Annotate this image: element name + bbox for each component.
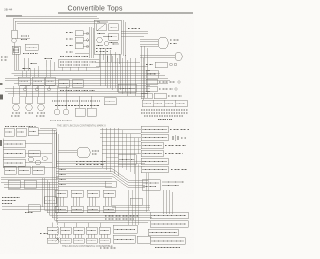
svg-text:THE 1957 LINCOLN CONTINENTAL M: THE 1957 LINCOLN CONTINENTAL MARK II <box>57 125 106 128</box>
grid vertical x122 <box>122 58 124 94</box>
label box above <box>25 44 38 50</box>
feed box row right 1 <box>58 80 69 88</box>
crossing vertical x147 <box>146 48 148 98</box>
wire vertical right of assembly <box>122 20 124 56</box>
relay R1 box <box>12 30 18 38</box>
crossing vertical x105 <box>104 48 106 86</box>
wire top bus line 2 <box>13 18 99 20</box>
stack box 2 <box>3 150 25 158</box>
main harness wire bundle <box>5 46 170 98</box>
wire below relay <box>13 43 15 70</box>
inner box 3 <box>109 33 119 40</box>
inner text marks <box>96 48 112 50</box>
legend text row 3 <box>144 115 183 117</box>
top lift cylinder motor 1 <box>11 86 21 116</box>
label text near relay <box>21 35 29 37</box>
B left notes text <box>2 198 58 212</box>
aux row 3 boxes <box>141 93 152 99</box>
column box 4 <box>141 150 163 157</box>
left margin ink speck 3 <box>0 140 2 146</box>
star mark <box>56 238 60 242</box>
bottom mid extra box <box>137 236 150 243</box>
crossing vertical x120 <box>119 55 121 90</box>
B wide mid harness <box>56 169 148 188</box>
feed row 3 terminal <box>86 45 88 47</box>
feed row 3 wire <box>83 46 89 48</box>
connector pin line 4 <box>140 46 158 48</box>
motor circles cluster B left <box>28 151 47 166</box>
bottom connector D3 <box>73 227 84 243</box>
connector pin line 3 <box>140 43 158 45</box>
feed row 1 box <box>75 31 83 36</box>
legend cell text <box>144 102 152 104</box>
B bottom connector row <box>47 227 110 243</box>
long wire row 2 <box>56 163 145 165</box>
B bottom band harness <box>45 210 153 227</box>
feed row 1 label <box>66 32 73 34</box>
B right label column <box>141 126 189 173</box>
right cluster above legend <box>141 79 182 99</box>
circuit breaker box <box>12 46 20 54</box>
top lift cylinder motor 2 <box>25 86 33 113</box>
extra drops label zone <box>24 58 54 71</box>
svg-text:Convertible Tops: Convertible Tops <box>68 5 124 12</box>
paper background <box>0 0 194 259</box>
caption tail <box>100 247 116 249</box>
B mid box <box>118 155 136 165</box>
motor symbol row <box>11 86 100 116</box>
extra cluster boxes <box>130 198 142 205</box>
wire labels row <box>60 90 95 92</box>
B enclosure rectangle <box>3 129 59 223</box>
mid cluster box 2 <box>104 98 116 105</box>
harness wire 2 <box>12 72 161 74</box>
relay R1 coil circle <box>12 38 16 42</box>
feed row 2 terminal <box>86 39 88 41</box>
feed row 3 label <box>66 45 73 47</box>
boxes on harness <box>8 180 20 188</box>
lower wire 2 <box>5 90 150 92</box>
B right bottom column <box>148 212 188 248</box>
crossing vertical x110 <box>109 50 111 88</box>
feed row 4 wire <box>75 52 89 54</box>
extra harness crossers A left <box>22 66 86 96</box>
wires below relay <box>162 190 164 214</box>
stack box 3 <box>3 159 25 167</box>
connector text marks D row <box>49 231 109 241</box>
right mid connector <box>140 53 182 101</box>
crossing vertical x144 <box>143 46 145 98</box>
left margin ink speck 1 <box>0 83 2 85</box>
long wire row 1 <box>56 160 145 162</box>
pump motor circle 2 <box>63 96 69 116</box>
harness wire 4 <box>5 77 168 79</box>
J2 label <box>34 80 43 82</box>
B lower mid box <box>44 197 56 204</box>
connector C3 <box>87 190 99 212</box>
lower switch box 2 <box>18 166 30 174</box>
slanting jogs <box>112 169 128 181</box>
scan grain overlay <box>0 14 194 254</box>
relay box right <box>146 70 158 78</box>
solenoid box 1 <box>75 108 85 116</box>
vertical bundle descending <box>41 178 43 207</box>
left margin label <box>1 57 8 60</box>
circuit breaker label <box>23 53 38 55</box>
vertical wire bundle right edge <box>52 129 54 218</box>
horizontal feed pair <box>2 206 58 208</box>
right label row <box>146 64 153 66</box>
lower harness wires <box>5 89 150 97</box>
bottom connector D5 <box>99 227 110 243</box>
grid vertical x117 <box>117 58 119 92</box>
B lower-left harness <box>1 177 58 215</box>
B mid oval component <box>58 148 99 158</box>
drops to bottom connectors <box>51 223 53 228</box>
right connector shell <box>175 53 182 61</box>
B top-left switch boxes <box>4 127 56 137</box>
bottom connector D1 <box>47 227 58 243</box>
feed box row right 2 <box>72 80 83 88</box>
label above box <box>60 56 88 58</box>
lower wire 4 <box>20 95 145 97</box>
feed row 1 wire <box>83 33 89 35</box>
vertical bundle v1 <box>88 27 90 58</box>
switch box SB2 <box>16 128 26 136</box>
legend centered word <box>158 119 172 121</box>
wire left drop 2 <box>15 21 17 30</box>
B right mid relay box <box>142 180 184 215</box>
label box <box>58 60 99 68</box>
connector text marks C row <box>57 194 114 210</box>
mid cluster box 1 <box>118 84 136 92</box>
small box on label row <box>155 62 167 68</box>
inner fuse box with X <box>97 24 107 31</box>
vertical bundle v2 <box>90 27 92 58</box>
feed row 2 box <box>75 37 83 42</box>
svg-text:3B-44: 3B-44 <box>4 8 13 12</box>
crossing vertical x141 <box>140 46 142 96</box>
column box 2 <box>141 134 168 141</box>
harness wire 6 <box>14 82 168 84</box>
wire top bus line 1 <box>6 15 97 17</box>
connector label <box>170 39 180 41</box>
crossing vertical x130 <box>129 58 131 94</box>
harness extra rows <box>58 180 112 182</box>
B bottom mid extra wires <box>105 181 150 210</box>
bus dark segment <box>6 15 22 17</box>
terminal dots <box>178 81 180 83</box>
terminal pair <box>170 63 173 66</box>
feed rows into assembly <box>66 27 93 58</box>
grid vertical x127 <box>127 60 129 96</box>
top lift cylinder motor 3 <box>36 86 46 116</box>
mid-left component boxes <box>18 77 55 85</box>
switch box SB3 <box>28 128 38 136</box>
connector shell oval <box>158 38 168 49</box>
extra label zone text <box>22 59 52 69</box>
column box 1 <box>141 126 168 133</box>
labels above <box>5 126 36 128</box>
B bottom right boxes <box>113 225 137 243</box>
junction terminal circles <box>24 88 51 91</box>
dashed reference line <box>25 212 60 242</box>
vertical bundle v3 <box>92 28 94 58</box>
stack box 1 <box>3 140 25 148</box>
assembly inner text marks <box>96 22 118 46</box>
B mid connector row <box>55 162 115 213</box>
grid horizontal y62 <box>96 61 140 63</box>
wire stub right of relay <box>17 38 30 40</box>
crossing vertical x115 <box>114 52 116 88</box>
long wire row 3 <box>56 165 145 167</box>
connector pin line 1 <box>140 38 158 40</box>
tiny note bottom left <box>40 233 48 235</box>
B left label stack <box>3 140 52 167</box>
feed row 3 box <box>75 44 83 49</box>
connector C2 <box>71 190 83 212</box>
harness wire 7 <box>20 85 150 87</box>
column box 6 <box>141 166 168 173</box>
legend text row 1 <box>141 109 188 111</box>
left margin ink speck 2 <box>0 95 3 100</box>
wires from stack to right <box>25 143 52 145</box>
crossing vertical x125 <box>124 55 126 92</box>
inner box 2 <box>109 24 119 31</box>
feed row 2 label <box>66 38 73 40</box>
wire top bus line 4 <box>17 23 99 25</box>
legend frame <box>142 100 187 107</box>
B grid verticals <box>100 128 141 176</box>
box on feed <box>28 205 40 212</box>
note text block <box>76 161 106 163</box>
wire pair to right connector <box>140 54 175 56</box>
feed row 4 label <box>66 51 73 53</box>
grid horizontal y66 <box>96 65 148 67</box>
svg-text:THE LINCOLN CONTINENTAL CONVER: THE LINCOLN CONTINENTAL CONVERTIBLE <box>62 245 113 248</box>
feed row 1 terminal <box>86 32 88 34</box>
crossing vertical x135 <box>134 58 136 96</box>
assembly pin drops <box>99 54 119 64</box>
junction box J3 <box>45 77 55 85</box>
solenoid drops <box>78 96 80 108</box>
long component label box <box>58 57 99 68</box>
lower wire 1 <box>5 88 150 90</box>
harness wire 3 <box>14 75 165 77</box>
junction box J1 <box>18 77 30 85</box>
grid horizontals to column <box>100 129 141 131</box>
legend text row 2 <box>141 112 188 114</box>
label box text <box>60 61 96 63</box>
lower wire 3 <box>8 93 148 95</box>
wire link breaker down <box>15 54 17 70</box>
switch box SB1 <box>4 128 14 136</box>
solenoid box 2 <box>87 108 96 116</box>
inner circle 2 <box>104 41 109 46</box>
breaker inner mark <box>14 48 19 53</box>
J1 label <box>20 80 29 82</box>
column box 3 <box>141 142 163 149</box>
right connector ladder <box>140 38 180 49</box>
connector C4 <box>103 190 115 212</box>
extra B grid density <box>102 130 141 174</box>
harness wire 5 <box>5 80 170 82</box>
inner circle 1 <box>97 37 103 43</box>
bottom connector D4 <box>86 227 97 243</box>
column box 5 <box>141 158 168 165</box>
label above wires <box>128 28 140 30</box>
bottom connector D2 <box>60 227 71 243</box>
subtitle text row <box>55 104 100 106</box>
wire left drop 1 <box>13 19 15 30</box>
wires from boxes to right <box>38 129 56 131</box>
harness wire end labels <box>59 169 66 171</box>
right edge vertical <box>142 58 144 100</box>
grid vertical x112 <box>112 56 114 90</box>
harness wire 1 <box>14 70 150 72</box>
B left lower cluster <box>4 166 44 174</box>
grid vertical x107 <box>107 56 109 88</box>
pump motor circle 1 <box>54 96 60 116</box>
B cross wires to right <box>56 161 145 166</box>
B right spine verticals <box>128 164 149 225</box>
lower switch box 3 <box>32 166 44 174</box>
bottom mid text rows <box>100 216 150 248</box>
aux row 2 box <box>146 86 157 92</box>
wire top bus line 3 <box>15 20 99 22</box>
battery glyph <box>172 136 174 140</box>
caption note above <box>50 120 72 122</box>
center control assembly <box>94 20 148 56</box>
connector pin line 2 <box>140 41 158 43</box>
J3 label <box>47 80 54 82</box>
crossing vertical x100 <box>99 48 101 86</box>
legend dividers <box>152 100 154 107</box>
aux row 1 box <box>146 79 157 85</box>
junction box J2 <box>32 77 44 85</box>
legend block <box>141 100 188 120</box>
feed row 2 wire <box>83 39 89 41</box>
tiny note <box>25 212 33 214</box>
header rule <box>58 12 193 14</box>
lower switch box 1 <box>4 166 16 174</box>
wire-label row <box>52 100 100 102</box>
box inner text <box>6 131 13 133</box>
connector C1 <box>55 190 67 212</box>
wire assembly to right connector <box>121 30 148 32</box>
assembly outer box <box>94 20 121 54</box>
